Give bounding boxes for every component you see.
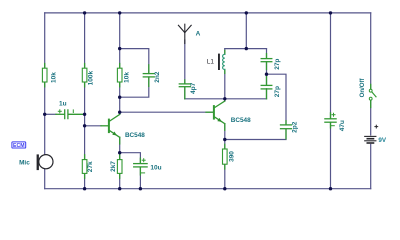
node Q1 base tap — [83, 124, 86, 127]
capacitor C4 4p7 — [179, 80, 197, 99]
capacitor C2 1u electrolytic — [56, 101, 84, 120]
battery 9V — [363, 125, 387, 144]
wire left column — [44, 13, 46, 189]
capacitor C7 2p2 — [280, 121, 298, 139]
node top rail C — [118, 11, 121, 14]
wire antenna column — [184, 40, 186, 99]
wire rail to tank tap — [245, 13, 247, 49]
svg-text:Mic: Mic — [19, 160, 30, 167]
svg-text:10k: 10k — [124, 72, 131, 83]
svg-text:47u: 47u — [339, 120, 346, 131]
node bottom rail 47u — [329, 187, 332, 190]
node 2n2 bottom — [118, 96, 121, 99]
transistor Q1 BC548 — [101, 114, 145, 143]
antenna A — [178, 24, 200, 43]
inductor L1 — [207, 50, 227, 73]
svg-text:BC548: BC548 — [125, 132, 145, 139]
svg-text:4p7: 4p7 — [190, 82, 197, 94]
svg-text:2n2: 2n2 — [154, 71, 161, 83]
wire 1u coupling row — [45, 113, 56, 115]
wire column C upper (10k to Q1 collector) — [119, 13, 121, 115]
node tank top left — [118, 47, 121, 50]
node bottom rail 390 — [223, 187, 226, 190]
svg-text:On/Off: On/Off — [359, 77, 366, 97]
svg-text:L1: L1 — [207, 59, 215, 66]
wire collector node row y99 — [185, 98, 267, 100]
node Q2 emitter — [223, 138, 226, 141]
node 1u left — [43, 113, 46, 116]
node bottom rail C — [118, 187, 121, 190]
wire 2n2 branch loop — [120, 49, 149, 98]
resistor R3 10k — [117, 64, 130, 87]
capacitor C3 10u electrolytic — [134, 158, 162, 175]
wire Q1 emitter to 10u — [120, 153, 141, 163]
resistor R6 390 — [223, 144, 236, 169]
resistor R2 100k — [82, 64, 94, 87]
wire tank top — [225, 48, 267, 50]
switch On/Off — [359, 77, 376, 107]
svg-text:BC548: BC548 — [231, 117, 251, 124]
wire 27p tap to 2p2 — [267, 74, 287, 124]
microphone ECM — [19, 154, 53, 170]
node Q1 emitter — [118, 151, 121, 154]
resistor R1 10k — [42, 64, 57, 87]
svg-text:10k: 10k — [50, 72, 57, 83]
label ECM box — [12, 142, 26, 149]
svg-text:27k: 27k — [87, 161, 94, 172]
wire right column (switch/battery) — [370, 13, 372, 189]
node bottom rail 10u — [139, 187, 142, 190]
wire Q2 emitter column lower — [224, 124, 226, 189]
svg-text:100k: 100k — [87, 70, 94, 85]
svg-text:A: A — [196, 31, 201, 38]
wire L1 column — [224, 49, 226, 101]
svg-text:10u: 10u — [150, 164, 161, 171]
capacitor C6 27p lower — [261, 77, 281, 99]
wire 2p2 bottom to Q2 emitter — [225, 130, 286, 140]
wire Q1 collector to Q2 base — [120, 111, 214, 113]
node tank tap top — [245, 47, 248, 50]
svg-text:2k7: 2k7 — [110, 161, 117, 172]
node top rail 47u — [329, 11, 332, 14]
wire top rail — [45, 12, 371, 14]
wire column C lower (Q1 emitter to bottom rail) — [119, 137, 121, 189]
capacitor C5 27p upper — [261, 54, 281, 70]
wire column B (100k/27k branch) — [84, 13, 86, 189]
svg-text:9V: 9V — [378, 137, 387, 144]
node 27p middle tap — [265, 73, 268, 76]
svg-text:27p: 27p — [274, 86, 281, 97]
node Q2 collector — [223, 97, 226, 100]
capacitor C1 2n2 — [143, 65, 161, 87]
node 1u right — [83, 113, 86, 116]
wire 10u bottom column — [139, 167, 141, 189]
svg-text:27p: 27p — [274, 59, 281, 70]
wire 47u column — [330, 13, 332, 189]
resistor R4 27k — [82, 155, 94, 178]
capacitor C8 47u electrolytic — [325, 113, 346, 131]
resistor R5 2k7 — [110, 155, 122, 178]
node top rail B — [83, 11, 86, 14]
svg-text:2p2: 2p2 — [292, 121, 299, 133]
svg-text:390: 390 — [228, 151, 235, 162]
wire Q1 base — [85, 125, 101, 127]
svg-text:ECM: ECM — [13, 143, 25, 149]
transistor Q2 BC548 — [206, 101, 251, 130]
node Q1 collector — [118, 111, 121, 114]
wire 27p column — [266, 49, 268, 99]
node top rail tank — [245, 11, 248, 14]
node bottom rail B — [83, 187, 86, 190]
svg-text:1u: 1u — [59, 101, 67, 108]
wire bottom rail — [45, 188, 371, 190]
